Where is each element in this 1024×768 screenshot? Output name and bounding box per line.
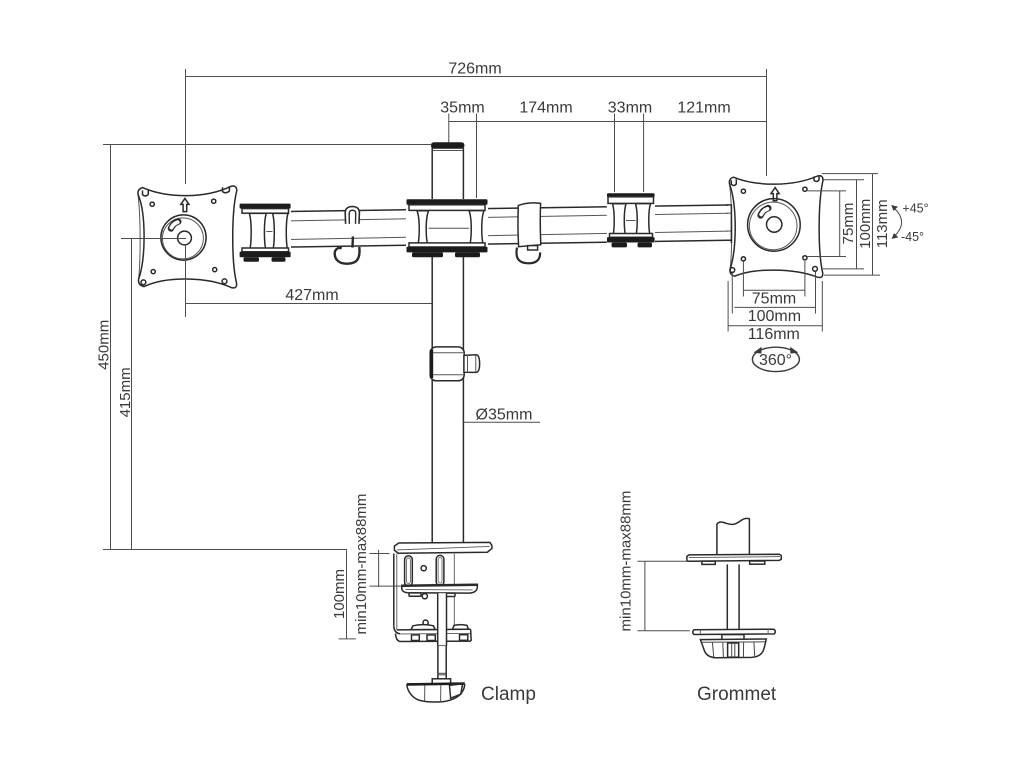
svg-text:174mm: 174mm: [519, 100, 572, 117]
svg-text:726mm: 726mm: [448, 61, 501, 78]
clamp dimension 100mm: [331, 550, 356, 639]
dimension 450mm: [96, 144, 432, 550]
grommet rod: [727, 564, 739, 629]
dimension 415mm: [117, 238, 186, 550]
pole height-adjust collar: [430, 347, 464, 381]
svg-text:100mm: 100mm: [857, 199, 874, 249]
clamp dimension min10mm-max88mm: [353, 494, 401, 635]
pole top cap: [431, 142, 464, 150]
dimension Ø35mm: [463, 407, 540, 424]
svg-text:121mm: 121mm: [677, 100, 730, 117]
center pole: [432, 148, 463, 543]
svg-text:33mm: 33mm: [608, 100, 652, 117]
dimension row 35/174/33/121: [440, 100, 766, 199]
left VESA plate: [138, 186, 237, 288]
svg-text:min10mm-max88mm: min10mm-max88mm: [618, 491, 635, 632]
svg-text:35mm: 35mm: [440, 100, 484, 117]
crossbar tube: [237, 205, 728, 248]
svg-text:360°: 360°: [759, 352, 792, 369]
right VESA plate: [726, 175, 823, 277]
left cable clip upper hook: [345, 207, 359, 224]
grommet nut collar: [722, 635, 744, 641]
clamp handle T-bar: [407, 679, 465, 702]
desk surface line: [103, 549, 347, 551]
center pole joint: [406, 199, 488, 257]
grommet wing nut: [700, 639, 766, 658]
svg-text:Ø35mm: Ø35mm: [476, 407, 533, 424]
left cable clip lower hook: [335, 236, 360, 263]
svg-text:450mm: 450mm: [96, 320, 113, 370]
svg-text:75mm: 75mm: [752, 291, 796, 308]
tilt arc +45/-45: [891, 202, 928, 245]
middle cable strap clip: [517, 203, 541, 263]
clamp C-bracket: [394, 554, 455, 630]
dimension 726mm: [186, 61, 767, 185]
left arm joint: [234, 204, 292, 263]
svg-text:75mm: 75mm: [840, 203, 857, 245]
grommet plate tabs: [702, 561, 765, 564]
svg-text:Clamp: Clamp: [481, 684, 536, 705]
clamp threaded rod: [438, 593, 447, 679]
collar side knob: [464, 355, 480, 373]
svg-text:415mm: 415mm: [117, 367, 134, 417]
svg-text:-45°: -45°: [901, 230, 924, 244]
grommet dimension min10mm-max88mm: [618, 491, 690, 632]
dimension 427mm: [186, 245, 432, 317]
right arm joint: [607, 193, 655, 251]
clamp bottom arm with nuts: [394, 625, 471, 642]
clamp middle shelf: [402, 584, 478, 596]
svg-text:Grommet: Grommet: [697, 684, 777, 705]
svg-text:113mm: 113mm: [874, 199, 891, 248]
svg-text:100mm: 100mm: [748, 308, 801, 325]
360 rotation symbol: [752, 347, 799, 372]
svg-text:+45°: +45°: [902, 202, 928, 216]
grommet pipe stub: [717, 518, 750, 554]
svg-text:100mm: 100mm: [331, 569, 348, 619]
desk clamp top plate: [394, 542, 492, 553]
svg-text:116mm: 116mm: [748, 326, 800, 343]
svg-text:427mm: 427mm: [285, 287, 338, 304]
right plate horizontal dims 75/100/116: [728, 261, 822, 343]
grommet washer plate: [693, 629, 775, 634]
svg-text:min10mm-max88mm: min10mm-max88mm: [353, 494, 370, 635]
grommet top plate: [687, 554, 781, 561]
right plate vertical dims 75/100/113: [808, 174, 891, 276]
